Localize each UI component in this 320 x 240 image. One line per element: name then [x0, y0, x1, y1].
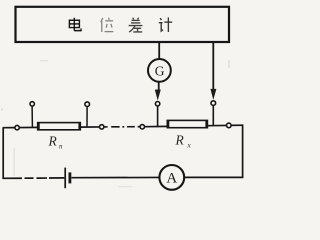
wire: right terminal down to middle rail: [212, 105, 214, 125]
galvanometer G: [148, 59, 171, 82]
wire: Rn to mid terminal: [80, 126, 99, 128]
node: terminal right of Rx: [227, 123, 232, 128]
svg-text:R: R: [175, 132, 185, 147]
wire: terminal to Rn: [19, 126, 38, 128]
node: left plug terminal: [155, 102, 159, 106]
wire: box bottom to galvanometer: [158, 42, 160, 59]
label 位: [101, 18, 114, 32]
battery: [65, 168, 70, 189]
node: terminal left of Rx feed: [140, 125, 144, 129]
wire: box bottom right to arrow: [212, 42, 214, 89]
wire: galvanometer to arrow: [158, 82, 160, 90]
wire: left edge vertical: [2, 127, 4, 178]
wire: ammeter to right corner: [184, 176, 243, 178]
svg-text:n: n: [59, 143, 63, 151]
resistor Rx: [167, 120, 207, 128]
wire: middle rail left segment: [3, 127, 15, 129]
wire: Rx to right terminal: [207, 124, 226, 126]
label 差: [129, 18, 143, 32]
node: top of right post: [85, 102, 90, 107]
wire: post right of Rn: [86, 106, 88, 127]
node: top of left post: [30, 102, 34, 106]
arrow (plug) right: [211, 89, 216, 99]
svg-text:G: G: [155, 63, 165, 78]
svg-text:A: A: [166, 171, 177, 187]
wire: right edge vertical: [242, 125, 244, 177]
wire: post left of Rn: [31, 106, 33, 127]
node: terminal left of Rn: [15, 125, 19, 129]
potentiometer box (电位差计): [16, 7, 230, 42]
resistor Rn: [38, 122, 81, 130]
node: right plug terminal: [211, 101, 216, 106]
wire: dash-dot omitted section: [104, 126, 140, 128]
ammeter A: [159, 165, 184, 190]
label 电: [69, 18, 81, 31]
wire: bottom rail left of battery (dash-dot): [2, 177, 64, 179]
wire: battery to ammeter: [72, 176, 160, 178]
wire: terminal to right corner: [231, 124, 243, 126]
label 计: [159, 17, 172, 32]
wire: terminal to Rx: [145, 125, 169, 127]
node: terminal right of Rn: [100, 125, 104, 129]
svg-text:R: R: [48, 134, 58, 149]
wire: left terminal down to middle rail: [157, 106, 159, 127]
arrow (plug) left: [155, 90, 160, 100]
